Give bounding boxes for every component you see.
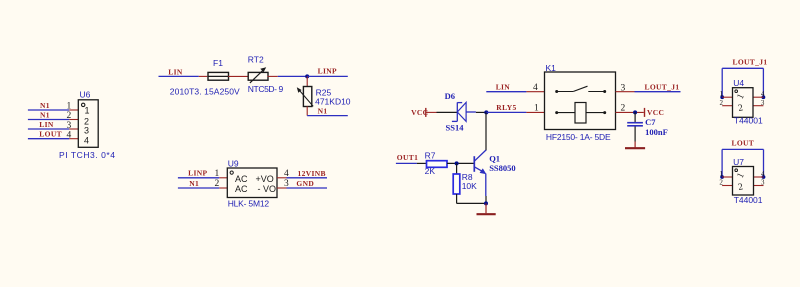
svg-text:2: 2 (720, 99, 724, 107)
svg-text:+VO: +VO (256, 174, 274, 184)
wire net RLY5 to relay pin1 (486, 111, 544, 113)
wire RT2 to node LINP (267, 75, 307, 77)
svg-text:T44001: T44001 (734, 115, 763, 125)
capacitor C7 (627, 112, 643, 141)
svg-text:AC: AC (235, 174, 248, 184)
wire net N1 below R25 (307, 115, 348, 117)
svg-text:2010T3. 15A250V: 2010T3. 15A250V (170, 86, 240, 96)
svg-text:1: 1 (85, 106, 90, 116)
svg-text:HLK- 5M12: HLK- 5M12 (228, 198, 270, 208)
node U4 pin4 junction (762, 95, 766, 99)
wire relay pin2 to VCC (616, 111, 644, 113)
relay K1 switch contact (555, 86, 606, 93)
svg-text:1: 1 (719, 170, 723, 178)
wire U9 pin3 net GND (277, 187, 327, 189)
wire U6 pin2 net N1 (28, 119, 78, 121)
svg-text:4: 4 (284, 169, 289, 179)
wire bracket LOUT to U7 pins 1 and 4 (722, 149, 763, 177)
node U7 pin1 junction (720, 175, 724, 179)
svg-text:U9: U9 (228, 158, 239, 168)
node emitter junction (484, 201, 488, 205)
svg-text:4: 4 (67, 131, 72, 141)
svg-text:- VO: - VO (258, 184, 277, 194)
svg-text:U7: U7 (733, 157, 744, 167)
svg-text:12VINB: 12VINB (298, 169, 326, 178)
svg-text:U6: U6 (80, 89, 91, 99)
svg-text:4: 4 (533, 83, 538, 93)
svg-text:LIN: LIN (496, 83, 511, 92)
wire U4 pin3 (753, 105, 763, 107)
diode D6 schottky (452, 102, 476, 121)
svg-text:3: 3 (67, 121, 72, 131)
wire U6 pin3 net LIN (28, 128, 78, 130)
resistor R7 (427, 161, 448, 168)
svg-text:LIN: LIN (168, 67, 183, 76)
svg-text:U4: U4 (733, 78, 744, 88)
node VCC junction at C7 (633, 110, 637, 114)
wire U9 pin1 net LINP (178, 177, 227, 179)
ground bar below C7 (625, 142, 645, 149)
svg-text:RT2: RT2 (248, 55, 264, 65)
svg-text:2K: 2K (425, 166, 436, 176)
wire VCC to D6 (427, 111, 458, 113)
svg-text:SS8050: SS8050 (489, 163, 515, 173)
svg-text:3: 3 (761, 99, 765, 107)
svg-text:Q1: Q1 (489, 153, 500, 163)
svg-text:471KD10: 471KD10 (315, 97, 351, 107)
transistor Q1 (474, 112, 486, 203)
power module U9 body (227, 168, 277, 198)
wire F1 to RT2 (228, 75, 248, 77)
svg-text:N1: N1 (40, 101, 50, 110)
thermistor RT2 (248, 67, 268, 83)
svg-text:4: 4 (761, 170, 765, 178)
wire U6 pin1 net N1 (28, 109, 78, 111)
svg-text:D6: D6 (445, 91, 455, 101)
svg-text:N1: N1 (189, 179, 199, 188)
relay K1 coil (555, 103, 606, 124)
svg-text:SS14: SS14 (446, 122, 465, 132)
svg-text:LOUT_J1: LOUT_J1 (733, 57, 768, 66)
wire relay pin3 net LOUT_J1 (616, 91, 681, 93)
power port VCC left (411, 108, 428, 117)
svg-text:4: 4 (761, 90, 765, 98)
svg-text:OUT1: OUT1 (397, 153, 418, 162)
svg-text:3: 3 (84, 126, 89, 136)
svg-text:RLY5: RLY5 (496, 103, 516, 112)
svg-text:LINP: LINP (318, 66, 337, 75)
svg-text:1: 1 (720, 90, 724, 98)
svg-text:2: 2 (719, 179, 723, 187)
wire U7 pin2 (722, 185, 732, 187)
resistor R8 (453, 163, 460, 203)
wire U9 pin2 net N1 (178, 187, 227, 189)
wire R7 to Q1 base (447, 162, 474, 164)
svg-text:4: 4 (84, 135, 89, 145)
node RLY5 junction (484, 110, 488, 114)
svg-text:1: 1 (215, 169, 220, 179)
wire bracket LOUT_J1 to U4 pins 1 and 4 (722, 68, 763, 97)
svg-text:2: 2 (215, 179, 220, 189)
svg-text:1: 1 (67, 102, 72, 112)
connector U6 body (78, 100, 98, 148)
wire R8 to emitter node (457, 202, 486, 204)
svg-text:VCC: VCC (647, 108, 664, 117)
wire U6 pin4 net LOUT (28, 138, 78, 140)
svg-text:LOUT_J1: LOUT_J1 (645, 83, 680, 92)
svg-text:F1: F1 (213, 58, 223, 68)
svg-text:LINP: LINP (188, 169, 207, 178)
wire U4 pin1 (722, 96, 732, 98)
fuse F1 (208, 72, 229, 80)
svg-text:N1: N1 (40, 110, 50, 119)
ground bar below Q1 (477, 203, 496, 214)
svg-text:R7: R7 (425, 150, 436, 160)
svg-text:LIN: LIN (39, 120, 54, 129)
wire net LINP (307, 75, 348, 77)
connector U7 body (733, 167, 754, 196)
svg-text:2: 2 (67, 111, 72, 121)
wire U4 pin4 (753, 96, 763, 98)
wire net LIN to relay pin4 (486, 91, 544, 93)
svg-text:LOUT: LOUT (732, 139, 755, 148)
svg-text:T44001: T44001 (734, 195, 763, 205)
svg-text:K1: K1 (546, 63, 557, 73)
svg-text:AC: AC (235, 184, 248, 194)
svg-text:1: 1 (534, 104, 539, 114)
node base junction (455, 161, 459, 165)
svg-text:NTC5D- 9: NTC5D- 9 (248, 84, 284, 94)
node U4 pin1 junction (720, 95, 724, 99)
svg-text:GND: GND (296, 179, 314, 188)
node U7 pin4 junction (762, 175, 766, 179)
svg-text:LOUT: LOUT (39, 130, 62, 139)
wire D6 to node RLY5 (476, 111, 486, 113)
svg-text:PI TCH3. 0*4: PI TCH3. 0*4 (59, 150, 116, 160)
wire U4 pin2 (722, 105, 732, 107)
wire U7 pin3 (754, 185, 764, 187)
power port VCC right (645, 108, 665, 117)
svg-text:3: 3 (761, 179, 765, 187)
svg-text:C7: C7 (645, 117, 656, 127)
svg-text:N1: N1 (318, 106, 328, 115)
svg-text:2: 2 (621, 103, 626, 113)
varistor R25 (297, 76, 313, 115)
connector U4 body (733, 88, 754, 118)
wire U7 pin1 (722, 176, 732, 178)
node LINP junction (305, 74, 309, 78)
svg-text:HF2150- 1A- 5DE: HF2150- 1A- 5DE (546, 132, 611, 142)
wire U7 pin4 (754, 176, 764, 178)
svg-text:100nF: 100nF (645, 127, 668, 137)
svg-text:3: 3 (284, 179, 289, 189)
relay K1 body (545, 72, 616, 130)
svg-text:10K: 10K (462, 181, 477, 191)
wire net OUT1 to R7 (396, 162, 427, 164)
wire net LIN to fuse F1 (159, 75, 208, 77)
wire U9 pin4 net 12VINB (277, 177, 327, 179)
